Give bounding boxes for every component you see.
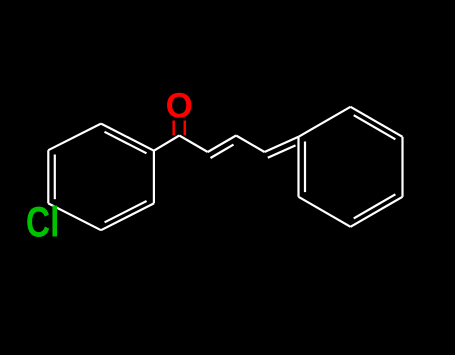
wire inner double top-C1 [105, 132, 147, 154]
wire ring edge bottom-lb [299, 197, 351, 227]
wire ring edge bl to lt (left vertical) [47, 150, 49, 203]
wire ring edge rt-rb (right vertical) [401, 137, 403, 197]
benzene ring right (phenyl) [299, 107, 403, 227]
wire ring edge lb-ipso (left vertical) [297, 137, 299, 197]
wire ring edge top to C1 [101, 124, 154, 151]
wire inner double bl-lt [54, 155, 56, 200]
wire inner double top-rt [354, 115, 396, 139]
wire ring edge top-rt [351, 107, 403, 137]
wire double bond V3=ipso [265, 137, 299, 152]
chain C(=O)-CH=CH-CH=CH [179, 136, 298, 159]
wire inner double rb-bottom [105, 201, 147, 222]
wire inner double lb-ipso [304, 142, 306, 193]
wire ring edge lt to top [48, 124, 101, 151]
wire bond C-V1 [179, 136, 207, 153]
svg-text:O: O [166, 87, 193, 126]
svg-text:Cl: Cl [26, 198, 60, 246]
wire ring edge C1 to rb (right vertical) [153, 151, 155, 204]
wire ring edge rb-bottom [351, 197, 403, 227]
carbonyl C=O double bond (red) [174, 121, 185, 136]
wire ring edge rb to bottom [101, 203, 154, 230]
bond C1 to carbonyl C [154, 136, 179, 151]
wire double bond V1=V2 [208, 136, 236, 153]
wire ring edge bottom to bl [48, 203, 101, 230]
wire bond V2-V3 [236, 136, 264, 153]
benzene ring left (4-chlorophenyl) [48, 124, 154, 231]
wire ring edge ipso-top [299, 107, 351, 137]
wire inner double rb-bottom [354, 194, 396, 218]
